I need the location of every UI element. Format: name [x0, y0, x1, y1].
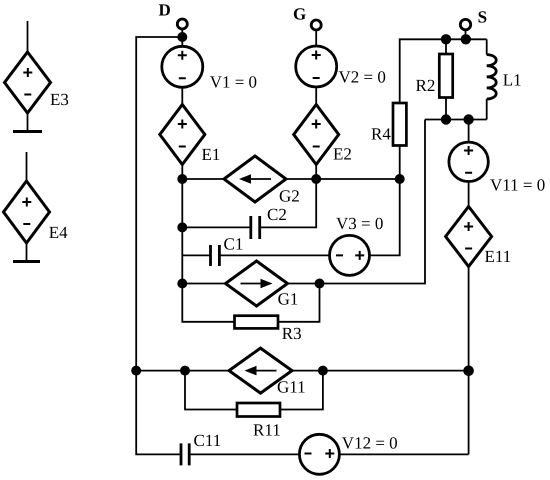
svg-text:V3 = 0: V3 = 0: [336, 214, 383, 233]
wire hook to G1 row: [320, 120, 426, 284]
svg-text:E3: E3: [50, 90, 69, 109]
svg-text:G11: G11: [277, 378, 306, 397]
svg-text:D: D: [159, 1, 171, 20]
voltage source V11: [449, 142, 488, 181]
svg-text:G1: G1: [278, 290, 299, 309]
voltage source V3: [330, 235, 370, 275]
wire G11 right: [292, 370, 469, 372]
node S row right: [461, 34, 471, 44]
ground (E4): [13, 260, 40, 263]
svg-text:G: G: [293, 5, 306, 24]
wire D terminal to V1: [181, 29, 183, 46]
wire R3 right up to G1 node: [278, 284, 320, 322]
wire V1 to E1: [181, 87, 183, 104]
controlled source E1: [160, 105, 205, 165]
controlled source E3: [5, 21, 51, 132]
svg-text:R4: R4: [371, 125, 391, 144]
svg-text:R2: R2: [416, 76, 436, 95]
wire V12 right to right rail: [339, 453, 468, 455]
controlled source G1: [226, 261, 288, 306]
wire G11 row: [136, 370, 229, 372]
resistor R11: [237, 403, 280, 417]
node G1 row left: [177, 279, 187, 289]
node G11 row far left: [131, 366, 141, 376]
wire G2 to E2 node: [286, 178, 316, 180]
svg-text:V1 = 0: V1 = 0: [210, 73, 257, 92]
svg-text:C11: C11: [194, 431, 222, 450]
wire G1 right: [288, 283, 320, 285]
node E2 bottom junction: [311, 174, 321, 184]
terminal G: [311, 20, 321, 30]
wire S terminal stub: [465, 30, 467, 40]
controlled source E4: [4, 152, 50, 262]
wire R11 left leg: [185, 371, 237, 410]
resistor R3: [235, 316, 279, 329]
capacitor C11: [181, 443, 189, 465]
svg-text:V2 = 0: V2 = 0: [339, 68, 386, 87]
wire G terminal to V2: [315, 30, 317, 46]
node R4 junction: [395, 174, 405, 184]
capacitor C1: [211, 245, 220, 266]
controlled source E11: [446, 207, 492, 267]
svg-text:E1: E1: [202, 145, 221, 164]
wire G2 row left: [182, 178, 224, 180]
wire C11 to V12: [191, 453, 300, 455]
wire D to left rail down to bottom row: [136, 37, 182, 454]
wire to V11: [468, 120, 470, 143]
node E1 bottom junction: [177, 174, 187, 184]
wire V11 to E11: [468, 182, 470, 207]
svg-text:L1: L1: [503, 71, 522, 90]
terminal D: [177, 19, 187, 29]
voltage source V12: [299, 434, 339, 474]
wire E1 to node: [181, 165, 183, 180]
node S bottom right: [463, 114, 473, 124]
controlled source G11: [229, 348, 292, 393]
svg-text:C1: C1: [224, 235, 244, 254]
terminal S: [460, 19, 470, 29]
svg-text:E2: E2: [333, 145, 352, 164]
node right rail G11 row: [463, 366, 474, 377]
svg-text:G2: G2: [279, 187, 300, 206]
node G1 row right: [315, 279, 325, 289]
node S bottom left: [441, 114, 451, 124]
node S row left: [441, 34, 451, 44]
node G11 row left: [180, 366, 190, 376]
wire E11 down right rail to bottom row: [468, 267, 470, 455]
node C2 row junction: [177, 222, 187, 232]
wire C1 row left: [182, 254, 209, 256]
wire V2 to E2: [315, 87, 317, 105]
wire E1 rail down to R3: [182, 179, 234, 322]
svg-text:R11: R11: [253, 421, 281, 440]
node G11 row right: [318, 366, 328, 376]
inductor L1: [487, 39, 497, 119]
wire R4 top to S row: [400, 39, 487, 103]
svg-text:C2: C2: [267, 205, 287, 224]
resistor R2: [439, 39, 452, 119]
wire G1 row left: [182, 283, 225, 285]
svg-text:V12 = 0: V12 = 0: [342, 434, 398, 453]
wire S bottom row: [425, 119, 487, 121]
ground (E3): [13, 130, 42, 133]
svg-text:E4: E4: [49, 223, 68, 242]
wire C2 row left: [182, 226, 249, 228]
resistor R4: [393, 103, 406, 146]
wire C1 to V3: [221, 254, 330, 256]
wire E2 node to R4 line: [316, 178, 400, 180]
voltage source V2: [296, 46, 337, 87]
voltage source V1: [162, 46, 203, 87]
wire C2 right to G2 node: [261, 179, 316, 227]
wire R11 right leg: [280, 371, 323, 410]
controlled source G2: [224, 156, 286, 202]
svg-text:V11 = 0: V11 = 0: [490, 176, 545, 195]
controlled source E2: [294, 105, 339, 165]
wire E2 to node: [315, 165, 317, 180]
svg-text:R3: R3: [282, 324, 302, 343]
svg-text:E11: E11: [485, 247, 512, 266]
svg-text:S: S: [478, 8, 487, 27]
capacitor C2: [251, 216, 260, 239]
wire V3 right up to R4: [370, 146, 400, 256]
node D junction: [177, 32, 187, 42]
